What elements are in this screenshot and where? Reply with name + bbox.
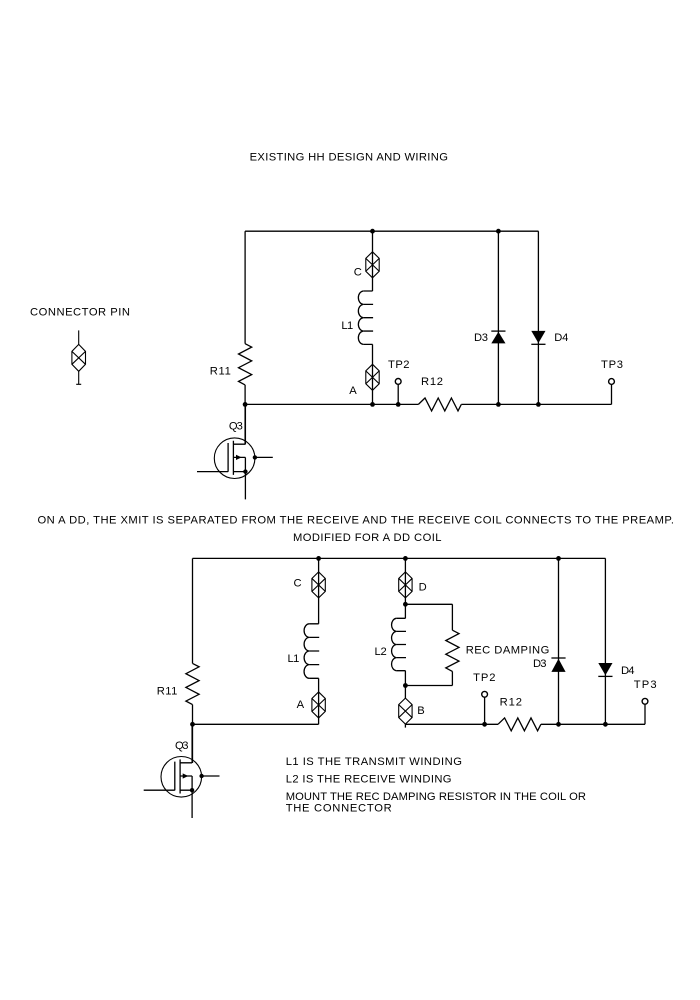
svg-text:D4: D4 (621, 665, 635, 677)
svg-text:A: A (297, 699, 305, 711)
svg-text:EXISTING HH DESIGN AND WIRING: EXISTING HH DESIGN AND WIRING (250, 152, 448, 164)
svg-text:R11: R11 (210, 366, 231, 378)
svg-text:B: B (417, 705, 424, 717)
svg-text:C: C (354, 267, 362, 279)
svg-text:D: D (419, 582, 427, 594)
svg-text:TP2: TP2 (473, 672, 495, 684)
svg-text:TP2: TP2 (388, 359, 410, 371)
svg-text:D3: D3 (533, 658, 547, 670)
svg-text:D4: D4 (554, 332, 568, 344)
svg-text:MODIFIED FOR A DD COIL: MODIFIED FOR A DD COIL (293, 532, 442, 544)
svg-text:CONNECTOR PIN: CONNECTOR PIN (30, 306, 130, 318)
svg-text:MOUNT THE REC DAMPING RESISTOR: MOUNT THE REC DAMPING RESISTOR IN THE CO… (286, 791, 586, 803)
svg-text:TP3: TP3 (601, 359, 623, 371)
svg-text:R12: R12 (500, 696, 522, 708)
svg-text:L1 IS THE TRANSMIT WINDING: L1 IS THE TRANSMIT WINDING (286, 756, 462, 768)
svg-text:REC DAMPING: REC DAMPING (466, 644, 550, 656)
svg-text:L2 IS THE RECEIVE WINDING: L2 IS THE RECEIVE WINDING (286, 773, 452, 785)
svg-text:THE CONNECTOR: THE CONNECTOR (286, 803, 392, 815)
svg-text:D3: D3 (474, 332, 488, 344)
svg-text:ON A DD, THE XMIT IS SEPARATED: ON A DD, THE XMIT IS SEPARATED FROM THE … (38, 514, 675, 526)
svg-text:R11: R11 (157, 686, 178, 698)
svg-text:TP3: TP3 (634, 679, 657, 691)
svg-text:L1: L1 (288, 653, 300, 665)
svg-text:Q3: Q3 (229, 421, 243, 433)
svg-text:A: A (349, 385, 357, 397)
svg-text:Q3: Q3 (175, 740, 189, 752)
svg-text:R12: R12 (421, 376, 443, 388)
svg-text:L1: L1 (341, 320, 353, 332)
svg-text:L2: L2 (375, 646, 387, 658)
svg-text:C: C (294, 578, 302, 590)
